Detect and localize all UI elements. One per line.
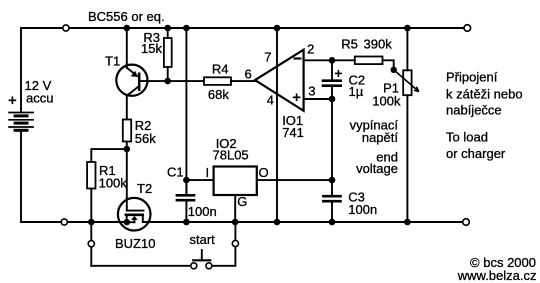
wire pin 3 to C2/C3 node [304,98,332,100]
junction dot C1 bottom rail [183,219,190,226]
svg-text:www.belza.cz: www.belza.cz [457,268,537,283]
regulator IO2 78L05 box [214,167,257,196]
junction dot pin2 node [329,57,336,64]
svg-text:napětí: napětí [362,130,399,145]
label Pripojeni [446,70,498,85]
connector open circle bottom-right to load [463,219,470,226]
svg-text:Připojení: Připojení [446,70,498,85]
transistor T1 BC556 PNP [116,64,147,96]
capacitor C3 100n [322,196,342,222]
connector open circle right drop [232,240,238,246]
resistor R4 body [204,77,231,85]
label 100n C1 [188,204,217,219]
wire R4 to op-amp output pin 6 [231,80,255,82]
capacitor C2 polarized 1u [322,60,342,99]
junction dot O wire pin3 column [329,177,336,184]
wire bottom rail right segment (drain side) [143,221,463,223]
svg-text:390k: 390k [364,36,393,51]
capacitor C1 100n [176,180,196,222]
label R3 [143,30,160,45]
svg-text:BC556 or eq.: BC556 or eq. [88,9,165,24]
label BUZ10 [115,236,155,251]
label start [190,232,216,247]
svg-text:100k: 100k [372,94,401,109]
svg-text:4: 4 [267,92,274,107]
label C2 [349,72,366,87]
label I input pin [206,165,210,180]
pushbutton S1 start [191,250,212,269]
potentiometer P1 100k [394,70,419,95]
label C3 [348,189,365,204]
connector open circle left drop [88,241,94,247]
junction dot R3 top rail [164,25,171,32]
junction dot T2 source on rail [124,219,130,225]
node base junction dot R3/R4 [164,78,171,85]
label or charger [446,146,506,161]
label BC556 or eq. [88,9,165,24]
svg-text:start: start [190,232,216,247]
op-amp minus sign pin2 [294,57,302,59]
label pin 2 [307,42,314,57]
wire pin3 node down to C3 [331,99,333,195]
wire start button right lead [212,222,235,266]
junction dot G stem rail [232,219,239,226]
svg-text:T2: T2 [137,181,152,196]
svg-text:or charger: or charger [446,146,506,161]
svg-text:741: 741 [282,125,304,140]
wire bottom rail left segment (source side) [21,221,134,223]
svg-text:R5: R5 [341,36,358,51]
label 78L05 [213,148,249,163]
label end [376,150,398,165]
wire top positive rail [21,27,464,29]
junction dot pin7 top rail [274,25,281,32]
wire battery left vertical bottom [20,132,22,222]
label T1 [105,54,120,69]
wire P1 top to rail [406,28,408,70]
svg-text:accu: accu [26,91,53,106]
junction dot column top rail [183,25,190,32]
op-amp IO1 741 triangle [255,50,304,111]
wire start button left lead [91,265,190,267]
label copyright bcs 2000 [470,255,536,270]
battery B1 12V accu [8,113,34,132]
label T2 [137,181,152,196]
junction dot R1 bottom rail [88,219,95,226]
label R4 [212,62,229,77]
resistor R3 body [164,38,172,67]
label 12 V [25,78,52,93]
resistor R5 body [355,57,383,65]
svg-text:G: G [237,194,247,209]
resistor R1 body [87,162,95,189]
label napeti [362,130,399,145]
label 15k [141,41,162,56]
svg-text:I: I [206,165,210,180]
wire R3 bottom to base node [167,67,169,81]
label 100k R1 [99,175,128,190]
svg-text:78L05: 78L05 [213,148,249,163]
wire T1 collector to R2 [126,96,128,120]
label voltage [356,161,398,176]
connector open circle top-right to load [464,25,471,32]
label k zatezi nebo [446,87,523,102]
label R5 [341,36,358,51]
wire R3 top to rail [167,28,169,38]
label 1u [349,84,364,99]
label 56k [135,131,156,146]
svg-text:15k: 15k [141,41,162,56]
svg-text:O: O [259,165,269,180]
battery plus sign [9,97,17,105]
label 390k [364,36,393,51]
label 100n C3 [348,202,377,217]
label R2 [135,118,152,133]
wire T1 emitter to top rail [126,28,128,64]
svg-text:6: 6 [245,67,252,82]
junction dot pin4 bottom rail [274,219,281,226]
wire gate lead down to T2 [126,149,128,211]
wire IO2 output to pin3 column [257,179,332,181]
wire T1 base to R4 [139,80,204,82]
label accu [26,91,53,106]
wire pin 2 to C2 node [304,59,332,61]
junction dot P1 bottom rail [404,219,411,226]
label vypinaci [350,118,399,133]
svg-text:To load: To load [446,130,488,145]
node gate junction dot [124,146,131,153]
wire IO2/C1 column from top rail [185,28,187,194]
wire IO2 ground stem [234,195,236,222]
wire IO2 input from column [186,179,213,181]
wire P1 bottom to rail [406,95,408,222]
svg-text:100n: 100n [348,202,377,217]
label 100k P1 [372,94,401,109]
junction dot T1 emitter top rail [124,25,131,32]
junction dot C3 bottom rail [329,219,336,226]
wire battery left vertical top [20,28,22,112]
wire start button left drop [90,222,92,266]
wire pin2 node to R5 [332,59,355,61]
label www.belza.cz [457,268,537,283]
wire R5 right to wiper node [383,60,394,70]
transistor T2 BUZ10 MOSFET [118,198,151,231]
wire gate node to R1 top [91,149,127,162]
junction dot pin3 node [329,96,336,103]
svg-text:2: 2 [307,42,314,57]
label C1 [167,165,184,180]
connector open circle top-left battery link [63,25,69,31]
label pin 3 [308,83,315,98]
svg-text:100k: 100k [99,175,128,190]
wire op-amp supply pin7/pin4 vertical [276,28,278,222]
op-amp plus sign pin3 [293,94,301,102]
label 741 [282,125,304,140]
junction dot P1 top rail [404,25,411,32]
label R1 [99,163,116,178]
label To load [446,130,488,145]
label IO2 [216,136,237,151]
svg-text:7: 7 [264,49,271,64]
label IO1 [282,113,303,128]
svg-text:nabíječce: nabíječce [446,103,502,118]
junction dot wiper node [391,67,397,73]
svg-text:R4: R4 [212,62,229,77]
C2 plus sign [335,70,342,77]
wire R1 bottom to source rail [90,189,92,223]
svg-text:100n: 100n [188,204,217,219]
label 68k [208,87,229,102]
label pin 6 [245,67,252,82]
svg-text:3: 3 [308,83,315,98]
svg-text:BUZ10: BUZ10 [115,236,155,251]
label pin 7 [264,49,271,64]
svg-text:56k: 56k [135,131,156,146]
svg-text:T1: T1 [105,54,120,69]
label nabijecce [446,103,502,118]
junction dot C1 top node [183,177,190,184]
connector open circle bottom-left battery link [61,219,67,225]
svg-text:68k: 68k [208,87,229,102]
svg-text:k zátěži nebo: k zátěži nebo [446,87,523,102]
label G ground pin [237,194,247,209]
label pin 4 [267,92,274,107]
svg-text:voltage: voltage [356,161,398,176]
label O output pin [259,165,269,180]
wire R2 bottom to gate node [126,142,128,150]
svg-text:C1: C1 [167,165,184,180]
label P1 [383,81,399,96]
svg-text:1µ: 1µ [349,84,364,99]
resistor R2 body [123,120,131,142]
